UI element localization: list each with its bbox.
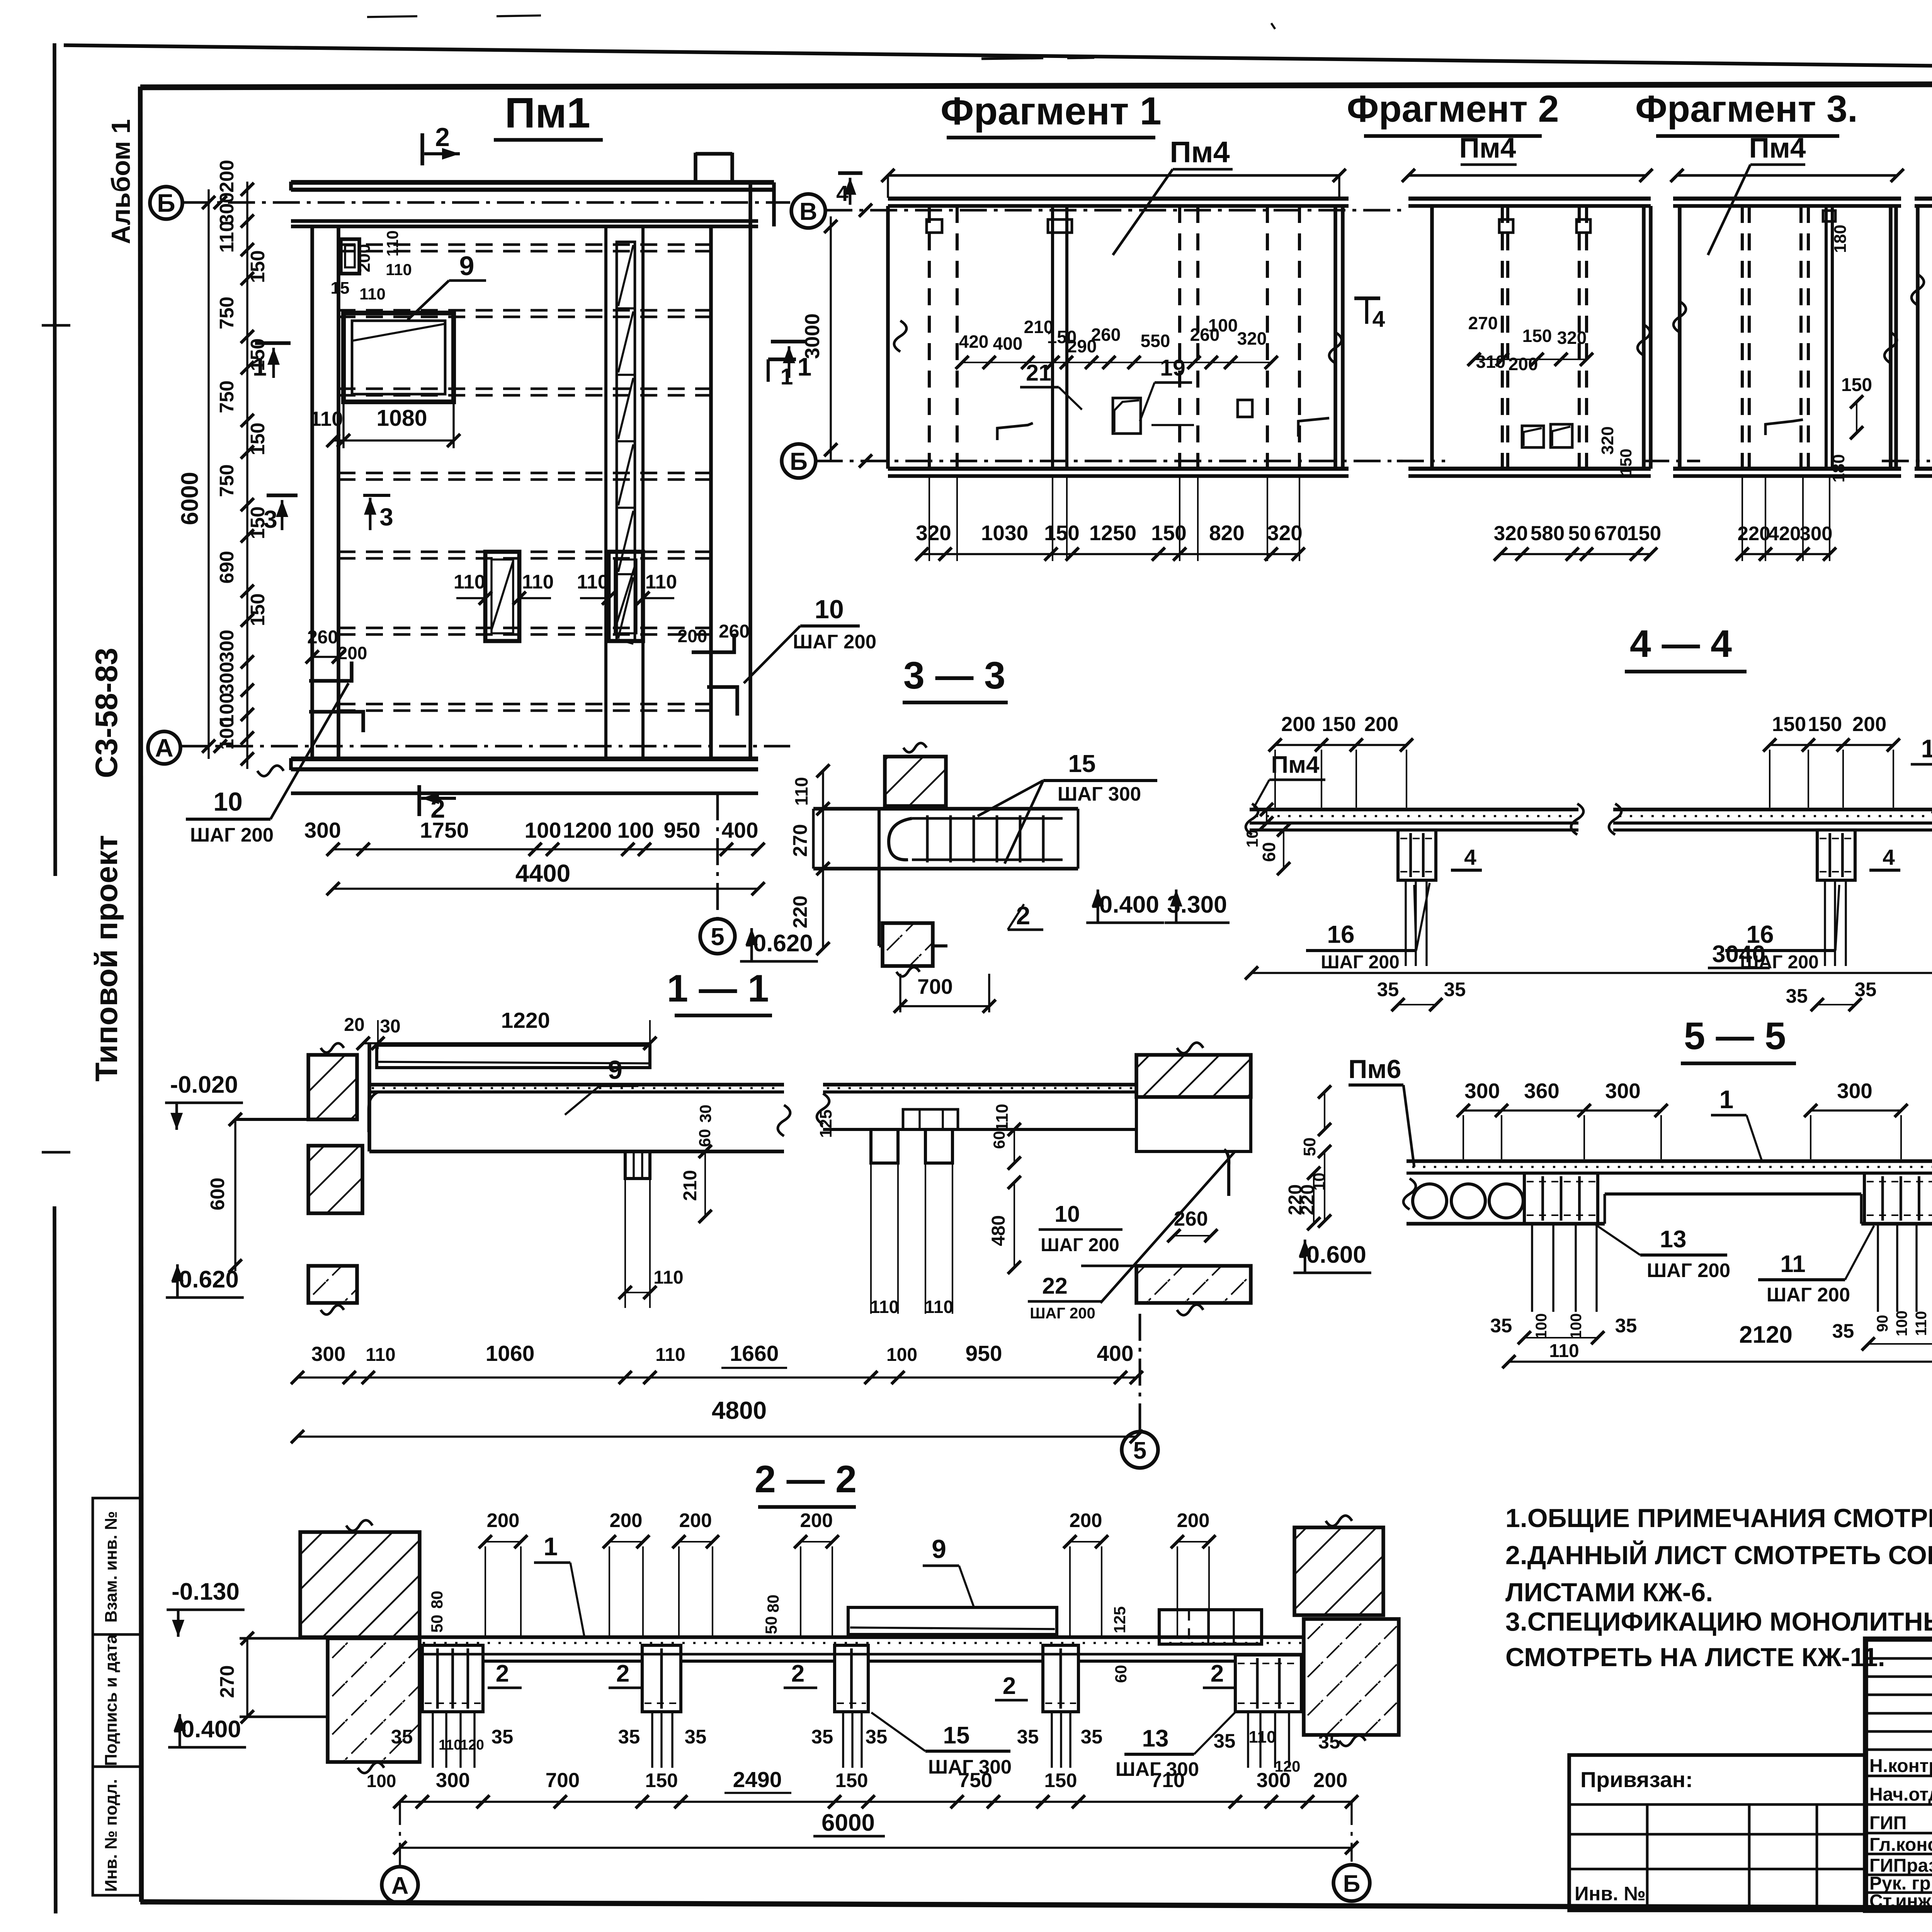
section 2-2 rebar box 3 xyxy=(835,1645,868,1712)
svg-text:300: 300 xyxy=(216,662,238,694)
svg-text:300: 300 xyxy=(304,818,341,843)
svg-text:5: 5 xyxy=(1133,1437,1146,1464)
plan Пм1 mid openings xyxy=(485,552,643,641)
svg-text:-0.020: -0.020 xyxy=(170,1071,238,1098)
svg-text:150: 150 xyxy=(1522,326,1552,346)
svg-text:260: 260 xyxy=(307,627,338,648)
section 1-1 plate 9 xyxy=(377,1045,650,1068)
svg-text:100: 100 xyxy=(886,1345,917,1365)
section 1-1 teeth right piece xyxy=(870,1129,953,1317)
svg-text:4800: 4800 xyxy=(712,1396,767,1424)
svg-text:110: 110 xyxy=(1913,1311,1930,1336)
svg-text:60: 60 xyxy=(990,1131,1008,1149)
svg-text:220: 220 xyxy=(1298,1184,1318,1215)
fragment 3 title xyxy=(1635,88,1858,136)
svg-text:15: 15 xyxy=(943,1722,970,1749)
svg-text:9: 9 xyxy=(608,1055,622,1085)
svg-text:150: 150 xyxy=(1808,713,1842,736)
plan Пм1 title xyxy=(494,89,603,140)
svg-text:120: 120 xyxy=(460,1737,484,1753)
section 2-2 rebar tails below boxes xyxy=(433,1712,1289,1768)
elevation -0.400 on 2-2 xyxy=(168,1714,246,1747)
fragment 4 slab edges xyxy=(1915,199,1932,476)
section 2-2 rebar box 4 xyxy=(1043,1645,1078,1712)
fragment 3 label Пм4 xyxy=(1708,133,1806,255)
section 5-5 slab xyxy=(1403,1161,1932,1224)
svg-text:2: 2 xyxy=(1211,1660,1224,1687)
section 3-3 left dims 110 270 220 xyxy=(789,764,830,955)
section 4-4 slab piece 2 xyxy=(1609,804,1932,856)
svg-text:35: 35 xyxy=(618,1726,640,1748)
drawing frame top border xyxy=(140,83,1932,87)
svg-text:750: 750 xyxy=(216,380,238,413)
fragment 2 label Пм4 xyxy=(1459,133,1517,165)
axis В circle and line xyxy=(791,194,1403,228)
elevation -0.130 xyxy=(167,1578,245,1637)
fragment 1 label 21 xyxy=(1020,360,1082,410)
label 13 шаг 200 xyxy=(1596,1225,1730,1281)
svg-text:Типовой проект: Типовой проект xyxy=(89,835,124,1082)
section 1-1 left vertical dim 600 xyxy=(206,1113,242,1272)
plan Пм1 top slab edge xyxy=(291,153,774,190)
svg-text:6000: 6000 xyxy=(177,472,203,525)
fragment 2 slab edges xyxy=(1402,169,1653,476)
plan Пм1 bottom-right rebar hooks xyxy=(678,621,750,716)
svg-text:110: 110 xyxy=(577,571,609,593)
svg-text:Взам. инв. №: Взам. инв. № xyxy=(102,1511,121,1623)
svg-text:150: 150 xyxy=(1151,521,1187,545)
svg-text:60: 60 xyxy=(1259,842,1279,862)
section 2-2 floor plate 9 xyxy=(848,1534,1057,1634)
svg-text:950: 950 xyxy=(965,1341,1002,1366)
section 1-1 left face and slab xyxy=(369,1043,790,1151)
label 1 on 5-5 xyxy=(1711,1085,1762,1161)
fragment 2 bottom dim chain xyxy=(1494,522,1661,561)
svg-text:35: 35 xyxy=(1444,978,1466,1000)
svg-text:19: 19 xyxy=(1160,355,1185,381)
elevation -0.620 xyxy=(740,928,818,961)
svg-text:150: 150 xyxy=(1841,375,1872,395)
section 2-2 rebar box 1 xyxy=(422,1645,483,1712)
section mark 2 bottom xyxy=(419,785,456,823)
svg-text:Привязан:: Привязан: xyxy=(1580,1767,1693,1792)
svg-text:1060: 1060 xyxy=(486,1341,535,1366)
svg-text:9: 9 xyxy=(459,251,474,281)
svg-text:100: 100 xyxy=(1533,1313,1550,1339)
svg-text:420: 420 xyxy=(959,332,989,352)
svg-text:9: 9 xyxy=(932,1534,946,1564)
svg-text:1: 1 xyxy=(781,364,793,389)
section 5-5 hollow core circles xyxy=(1413,1184,1523,1218)
section 5-5 title xyxy=(1681,1014,1796,1063)
svg-text:В: В xyxy=(799,197,817,225)
plan Пм1 window opening xyxy=(344,313,454,402)
svg-text:35: 35 xyxy=(1786,985,1808,1007)
scan artifact dashes top xyxy=(367,15,1275,59)
section 4-4 small dims 10 60 xyxy=(1243,803,1290,875)
svg-text:22: 22 xyxy=(1042,1273,1068,1299)
svg-text:420: 420 xyxy=(1768,522,1801,544)
svg-text:4 — 4: 4 — 4 xyxy=(1630,622,1732,665)
section 5-5 left rebar tails xyxy=(1490,1224,1637,1361)
svg-text:Гл.констр: Гл.констр xyxy=(1869,1835,1932,1855)
section mark 3 left xyxy=(264,495,298,533)
svg-text:Фрагмент 1: Фрагмент 1 xyxy=(940,90,1162,133)
section 4-4 tooth 1 xyxy=(1398,830,1436,966)
label 10 шаг 200 (bottom-left) xyxy=(186,683,349,846)
label 15 шаг 300 xyxy=(978,750,1157,864)
notes line 5 xyxy=(1505,1643,1885,1672)
svg-text:50: 50 xyxy=(1300,1138,1319,1156)
notes line 3 xyxy=(1505,1578,1713,1607)
svg-text:100: 100 xyxy=(524,818,561,843)
svg-text:Подпись и дата: Подпись и дата xyxy=(102,1634,121,1766)
svg-text:2: 2 xyxy=(791,1660,804,1687)
svg-text:15: 15 xyxy=(331,279,350,298)
svg-text:260: 260 xyxy=(1091,325,1121,345)
svg-text:580: 580 xyxy=(1531,522,1565,545)
svg-text:300: 300 xyxy=(1799,522,1832,544)
section 3-3 bottom hatched wall xyxy=(883,923,933,976)
svg-text:4: 4 xyxy=(1372,306,1385,332)
section 1-1 right slab piece xyxy=(817,1085,1251,1151)
section mark 3 mid xyxy=(363,495,393,531)
section 5-5 left small dims xyxy=(1285,1167,1328,1230)
svg-text:11: 11 xyxy=(1780,1251,1806,1277)
left edge registration ticks xyxy=(42,325,70,1152)
svg-text:Альбом 1: Альбом 1 xyxy=(106,119,136,244)
svg-text:ШАГ 200: ШАГ 200 xyxy=(1767,1284,1850,1306)
svg-text:35: 35 xyxy=(811,1726,833,1748)
svg-text:200: 200 xyxy=(678,626,707,646)
svg-text:А: А xyxy=(155,733,173,762)
svg-text:-0.130: -0.130 xyxy=(172,1578,240,1605)
section 2-2 slab lines xyxy=(420,1637,1304,1661)
section 3-3 left boundary xyxy=(813,809,947,946)
svg-text:200: 200 xyxy=(800,1509,833,1531)
fragment 2 body edges xyxy=(1432,206,1651,469)
axis 5 circle below 1-1 xyxy=(1122,1314,1158,1468)
svg-text:200: 200 xyxy=(486,1509,519,1531)
section mark Т1 below fragment gap xyxy=(768,359,796,389)
svg-text:100: 100 xyxy=(216,717,238,750)
section 3-3 title xyxy=(903,654,1008,702)
section 3-3 slab with ties xyxy=(813,809,1078,869)
plan Пм1 second edge lines xyxy=(291,221,758,226)
svg-text:Пм6: Пм6 xyxy=(1349,1054,1401,1084)
label 9 on 1-1 xyxy=(565,1055,638,1115)
svg-text:260: 260 xyxy=(1174,1207,1208,1230)
привязан table xyxy=(1569,1755,1866,1910)
svg-text:300: 300 xyxy=(216,192,238,225)
plan Пм1 dashed reinforcement rows xyxy=(338,245,711,711)
fragment 3 internal bits xyxy=(1765,224,1872,482)
section 1-1 right wall body xyxy=(1136,1092,1251,1151)
section 1-1 upper-left hatch block xyxy=(308,1043,357,1119)
section 1-1 bottom chain xyxy=(291,1341,1143,1384)
label 16 шаг 200 second xyxy=(1725,885,1839,973)
label 16 шаг 200 first xyxy=(1306,883,1430,973)
svg-text:60: 60 xyxy=(1112,1665,1130,1683)
svg-text:300: 300 xyxy=(436,1769,470,1792)
svg-text:35: 35 xyxy=(1081,1726,1103,1748)
section 5-5 right rebar tails xyxy=(1832,1224,1932,1350)
vertical dim 3000 right of Пм1 xyxy=(801,216,837,460)
svg-text:50: 50 xyxy=(1568,522,1591,545)
svg-text:110: 110 xyxy=(645,571,677,593)
section 2-2 rebar box 5 xyxy=(1235,1655,1301,1712)
svg-text:Пм4: Пм4 xyxy=(1749,133,1806,164)
mid opening dims 110 xyxy=(454,571,677,605)
section 1-1 right small dims 50 220 xyxy=(1298,1085,1331,1228)
svg-text:35: 35 xyxy=(1318,1731,1340,1753)
svg-text:2: 2 xyxy=(496,1660,509,1687)
svg-text:200: 200 xyxy=(1852,713,1886,736)
label 15 шаг 300 on 2-2 xyxy=(871,1713,1012,1778)
svg-text:СМОТРЕТЬ НА ЛИСТЕ КЖ-11.: СМОТРЕТЬ НА ЛИСТЕ КЖ-11. xyxy=(1505,1643,1885,1672)
svg-text:6000: 6000 xyxy=(821,1810,875,1836)
svg-text:710: 710 xyxy=(1151,1769,1185,1792)
svg-text:1250: 1250 xyxy=(1089,521,1136,545)
notes line 2 xyxy=(1505,1540,1932,1570)
left margin stamp strip boxes xyxy=(93,1498,140,1895)
svg-text:110: 110 xyxy=(439,1737,462,1753)
elevation -0.620 on 1-1 xyxy=(166,1264,244,1298)
section 1-1 vertical dims 30 60 210 480 60 xyxy=(680,1105,1021,1274)
svg-text:100: 100 xyxy=(1208,315,1238,335)
section 1-1 tooth left piece xyxy=(619,1151,684,1308)
section 1-1 left pier hatch xyxy=(308,1146,362,1213)
section 4-4 total 3040 xyxy=(1245,941,1932,980)
dim 270 left of 2-2 xyxy=(216,1632,254,1723)
svg-text:125: 125 xyxy=(816,1109,835,1138)
svg-text:Б: Б xyxy=(1343,1871,1361,1897)
title block outer frame xyxy=(1866,1639,1932,1910)
svg-text:100: 100 xyxy=(1568,1313,1585,1339)
elevation -0.400 xyxy=(1086,889,1164,923)
svg-text:Б: Б xyxy=(157,189,175,217)
svg-text:1750: 1750 xyxy=(420,818,469,843)
svg-text:1080: 1080 xyxy=(376,405,427,431)
svg-text:80: 80 xyxy=(764,1595,782,1613)
svg-text:10: 10 xyxy=(1054,1201,1080,1227)
section mark 4 left of fragment 1 xyxy=(836,173,862,206)
svg-text:110: 110 xyxy=(359,285,386,303)
section 2-2 right wall hatch upper xyxy=(1294,1515,1383,1615)
svg-text:320: 320 xyxy=(1494,522,1528,545)
svg-text:200: 200 xyxy=(609,1509,642,1531)
plan Пм1 bottom slab edge xyxy=(291,758,758,793)
svg-text:ШАГ 200: ШАГ 200 xyxy=(1321,952,1400,973)
svg-text:5 — 5: 5 — 5 xyxy=(1684,1014,1786,1057)
svg-text:200: 200 xyxy=(355,244,374,272)
section 2-2 lower-left wall xyxy=(240,1638,420,1773)
section 1-1 top dims 20 30 1220 xyxy=(344,1008,656,1050)
svg-text:ШАГ 200: ШАГ 200 xyxy=(1030,1305,1095,1322)
svg-text:ШАГ 200: ШАГ 200 xyxy=(793,631,876,653)
svg-text:Ст.инж: Ст.инж xyxy=(1869,1891,1932,1912)
section 4-4 dims above piece1 xyxy=(1269,713,1413,808)
labels 2 on 2-2 xyxy=(488,1660,1236,1700)
fragment 1 bottom rebar steps xyxy=(997,418,1329,440)
svg-text:100: 100 xyxy=(1893,1311,1910,1337)
fragment 1 title xyxy=(940,90,1162,138)
svg-text:Б: Б xyxy=(790,447,808,475)
svg-text:110: 110 xyxy=(870,1297,899,1317)
section 4-4 dims above piece2 xyxy=(1763,713,1900,808)
section 3-3 top hatched wall xyxy=(885,743,946,806)
svg-text:3 — 3: 3 — 3 xyxy=(903,654,1005,697)
fragment 2 dashed bands xyxy=(1499,206,1590,469)
section 5-5 rebar box right xyxy=(1864,1173,1932,1224)
svg-text:110: 110 xyxy=(653,1267,683,1288)
fragment 3 bottom dim chain xyxy=(1736,476,1836,561)
svg-text:750: 750 xyxy=(958,1769,992,1792)
label 1 on 4-4 xyxy=(1911,734,1932,813)
svg-text:1220: 1220 xyxy=(501,1008,550,1033)
svg-text:150: 150 xyxy=(1322,713,1356,736)
label 13 шаг 300 on 2-2 xyxy=(1116,1711,1236,1780)
svg-text:ШАГ 200: ШАГ 200 xyxy=(190,824,274,846)
label 22 шаг 200 on 1-1 xyxy=(1028,1273,1101,1322)
svg-text:35: 35 xyxy=(1490,1315,1512,1337)
svg-text:2.ДАННЫЙ ЛИСТ СМОТРЕТЬ СОВМЕСТ: 2.ДАННЫЙ ЛИСТ СМОТРЕТЬ СОВМЕСТНО С xyxy=(1505,1540,1932,1570)
svg-text:400: 400 xyxy=(721,818,758,843)
svg-text:400: 400 xyxy=(993,333,1023,354)
svg-text:2490: 2490 xyxy=(733,1767,782,1792)
svg-text:820: 820 xyxy=(1209,521,1245,545)
window leader label 9 xyxy=(408,251,486,320)
svg-text:150: 150 xyxy=(1772,713,1806,736)
dim 260 on 1-1 xyxy=(1167,1207,1218,1242)
small rotated dims 80 50 125 60 on 2-2 xyxy=(428,1591,1130,1683)
svg-text:Фрагмент 2: Фрагмент 2 xyxy=(1347,88,1559,130)
fragment 3 slab edges xyxy=(1670,169,1904,476)
svg-text:400: 400 xyxy=(1097,1341,1133,1366)
svg-text:ШАГ 200: ШАГ 200 xyxy=(1041,1235,1119,1255)
svg-text:690: 690 xyxy=(216,551,238,583)
section 2-2 35 dims row xyxy=(391,1726,1340,1775)
fragment 4 body edges xyxy=(1912,206,1932,469)
svg-text:360: 360 xyxy=(1524,1079,1560,1103)
label 10 шаг 200 on 1-1 xyxy=(1039,1201,1122,1255)
svg-text:1: 1 xyxy=(1719,1085,1734,1114)
svg-text:А: А xyxy=(391,1872,409,1899)
plan Пм1 total 4400 xyxy=(327,859,765,895)
svg-text:300: 300 xyxy=(311,1343,345,1366)
axis Б dash-dot continuations under fragments xyxy=(1397,460,1932,463)
svg-text:270: 270 xyxy=(1468,313,1498,333)
svg-text:35: 35 xyxy=(1214,1730,1236,1752)
svg-text:320: 320 xyxy=(916,521,951,545)
elevation -0.020 xyxy=(165,1071,243,1130)
svg-text:110: 110 xyxy=(310,408,343,430)
label 1 on 2-2 xyxy=(534,1532,584,1636)
svg-text:3000: 3000 xyxy=(801,313,824,359)
svg-text:550: 550 xyxy=(1141,331,1170,351)
section 2-2 right wall hatch lower xyxy=(1304,1619,1399,1746)
left margin vertical text С3-58-83 xyxy=(89,648,124,778)
svg-text:300: 300 xyxy=(1257,1769,1291,1792)
svg-text:3040: 3040 xyxy=(1712,941,1765,968)
svg-text:1: 1 xyxy=(544,1532,558,1561)
notes line 1 xyxy=(1505,1503,1932,1533)
svg-text:50: 50 xyxy=(428,1615,446,1633)
svg-text:3.СПЕЦИФИКАЦИЮ МОНОЛИТНЫХ ПЕРЕ: 3.СПЕЦИФИКАЦИЮ МОНОЛИТНЫХ ПЕРЕКРЫТИЙ xyxy=(1505,1607,1932,1636)
axis А circle below 2-2 xyxy=(382,1802,418,1903)
svg-text:300: 300 xyxy=(216,629,238,662)
svg-text:5: 5 xyxy=(711,923,724,951)
section mark Т4 right of fragment 1 xyxy=(1354,298,1385,332)
svg-text:20: 20 xyxy=(344,1015,364,1035)
svg-text:10: 10 xyxy=(213,787,243,816)
drawing frame left border xyxy=(140,87,141,1902)
svg-text:270: 270 xyxy=(789,824,811,857)
svg-text:210: 210 xyxy=(680,1170,701,1201)
svg-text:Пм1: Пм1 xyxy=(505,89,590,137)
fragment 1 label 19 xyxy=(1140,355,1192,421)
svg-text:260: 260 xyxy=(719,621,750,642)
section 4-4 title xyxy=(1625,622,1747,672)
svg-text:200: 200 xyxy=(1364,713,1398,736)
plan Пм1 left total 6000 xyxy=(177,189,215,759)
svg-text:13: 13 xyxy=(1660,1226,1687,1253)
svg-text:150: 150 xyxy=(645,1769,678,1791)
svg-text:ЛИСТАМИ КЖ-6.: ЛИСТАМИ КЖ-6. xyxy=(1505,1578,1713,1607)
axis Б circle and line (fragment 1) xyxy=(782,444,1403,478)
label Пм4 on 4-4 xyxy=(1254,752,1325,808)
window dims 110 1080 xyxy=(310,402,460,448)
left margin vertical text Типовой проект xyxy=(89,835,124,1082)
left margin vertical text Альбом 1 xyxy=(106,119,136,244)
svg-text:21: 21 xyxy=(1026,360,1051,386)
svg-text:2: 2 xyxy=(1003,1673,1016,1699)
section 4-4 flags 4 xyxy=(1451,845,1932,870)
svg-text:150: 150 xyxy=(835,1769,868,1791)
svg-text:320: 320 xyxy=(1267,521,1303,545)
section 1-1 right wall upper hatch xyxy=(1136,1043,1251,1097)
plan Пм1 ladder column band xyxy=(606,226,643,759)
section 3-3 bottom dim 700 xyxy=(894,974,996,1013)
svg-text:Инв. № подл.: Инв. № подл. xyxy=(102,1779,121,1892)
svg-text:4: 4 xyxy=(836,181,849,206)
svg-text:180: 180 xyxy=(1829,454,1848,482)
svg-text:С3-58-83: С3-58-83 xyxy=(89,648,124,778)
svg-text:300: 300 xyxy=(1837,1079,1872,1103)
elevation 3.300 (right of 3-3) xyxy=(1165,889,1230,923)
plan Пм1 bottom-left rebar hooks xyxy=(306,627,367,732)
svg-text:35: 35 xyxy=(1017,1726,1039,1748)
section 2-2 plate right xyxy=(1159,1610,1262,1644)
svg-text:950: 950 xyxy=(663,818,700,843)
svg-text:35: 35 xyxy=(1832,1320,1854,1342)
axis Б circle below 2-2 xyxy=(1333,1802,1370,1901)
svg-text:200: 200 xyxy=(1177,1509,1209,1531)
axis А circle and line xyxy=(148,731,790,776)
svg-text:10: 10 xyxy=(1243,830,1261,848)
section 2-2 upper-left hatch wall xyxy=(300,1520,420,1637)
sheet outer top edge line xyxy=(64,45,1932,74)
svg-text:110: 110 xyxy=(655,1345,685,1365)
svg-text:Пм4: Пм4 xyxy=(1271,752,1320,778)
svg-text:110: 110 xyxy=(386,260,412,279)
svg-text:480: 480 xyxy=(988,1215,1009,1246)
plan Пм1 bottom dim chain xyxy=(304,818,765,856)
svg-text:Инв. №: Инв. № xyxy=(1575,1883,1646,1905)
svg-text:300: 300 xyxy=(1605,1079,1641,1103)
elevation -0.600 left xyxy=(1293,1240,1371,1273)
svg-text:220: 220 xyxy=(789,895,811,928)
